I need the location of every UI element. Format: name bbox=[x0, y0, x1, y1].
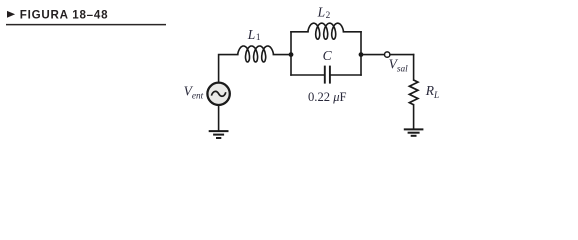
inductor L1 bbox=[238, 46, 274, 62]
node: tank left junction bbox=[289, 52, 294, 57]
ground (right, under RL) bbox=[404, 129, 424, 135]
wire: tank right vertical bbox=[360, 32, 362, 75]
wire: tank top branch, right segment bbox=[343, 31, 361, 33]
caption underline bbox=[6, 24, 166, 26]
svg-text:FIGURA 18–48: FIGURA 18–48 bbox=[20, 8, 108, 21]
wire: RL to ground bbox=[413, 105, 415, 129]
svg-text:0.22 μF: 0.22 μF bbox=[308, 90, 347, 104]
resistor RL bbox=[409, 80, 418, 105]
wire: tank bottom branch, right segment bbox=[330, 74, 361, 76]
node: tank right junction bbox=[359, 52, 364, 57]
voltage source Vent (AC) bbox=[207, 83, 229, 105]
svg-text:C: C bbox=[323, 48, 333, 63]
wire: tank bottom branch, left segment bbox=[291, 74, 325, 76]
wire: tank top branch, left segment bbox=[291, 31, 308, 33]
wire: source bottom to ground bbox=[218, 105, 220, 131]
inductor L2 bbox=[308, 23, 344, 39]
wire: tank left vertical bbox=[290, 32, 292, 75]
wire: output corner down to RL bbox=[413, 55, 415, 80]
wire: source top up and over to L1 bbox=[219, 55, 238, 83]
capacitor C plates bbox=[325, 66, 330, 84]
wire: L1 to tank left node bbox=[273, 54, 291, 56]
figure caption marker triangle bbox=[7, 11, 15, 18]
ground (left, under source) bbox=[209, 131, 229, 138]
terminal Vsal (open circle) bbox=[385, 52, 390, 57]
wire: tank right node to output corner bbox=[361, 54, 414, 56]
